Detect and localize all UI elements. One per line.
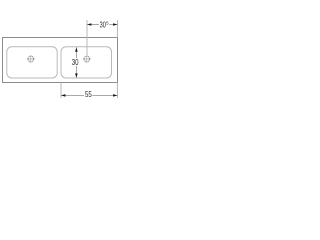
svg-text:30: 30: [72, 58, 79, 67]
svg-text:5: 5: [106, 21, 109, 27]
svg-text:55: 55: [85, 90, 92, 99]
